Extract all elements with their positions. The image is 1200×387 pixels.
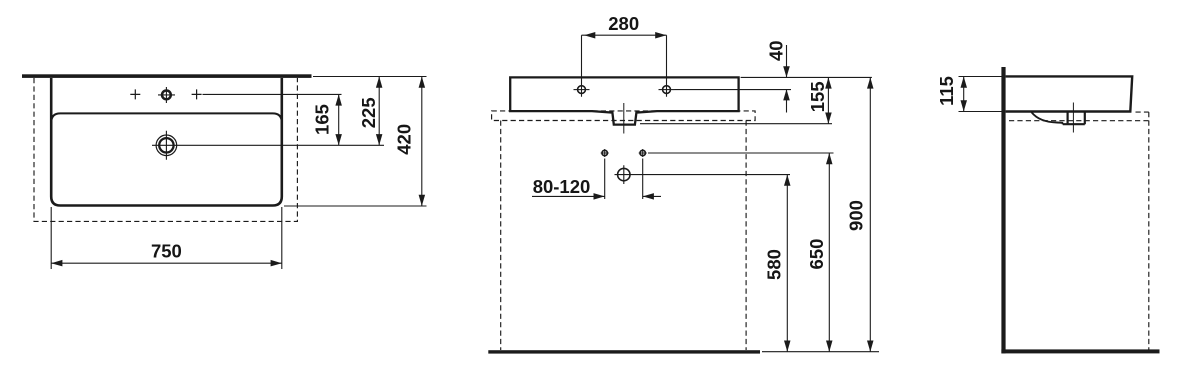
wall edge bar [22, 74, 312, 78]
furniture side dashed left [500, 121, 502, 351]
ext lines 280 to faucet holes [582, 35, 667, 97]
svg-text:750: 750 [151, 241, 182, 262]
svg-text:40: 40 [766, 40, 787, 61]
svg-text:80-120: 80-120 [533, 176, 591, 197]
dim 900 [869, 77, 871, 351]
basin front outline with trap cup [510, 77, 738, 124]
drain inner circle [159, 138, 173, 152]
dim 80-120 [532, 195, 605, 197]
svg-text:165: 165 [312, 104, 333, 135]
ext line faucet to 40 [675, 89, 792, 91]
dim 650 [828, 153, 830, 352]
bowl underside curve [1032, 112, 1063, 124]
basin outer outline [51, 78, 282, 206]
ext line bar to dims [313, 76, 427, 78]
supply drop line right [642, 159, 644, 200]
dim 420 [421, 77, 423, 207]
faucet cross left [130, 89, 140, 99]
dim 155 [827, 77, 829, 123]
faucet cross right [192, 89, 202, 99]
faucet hole front left [578, 86, 586, 94]
supply connection right [640, 150, 645, 155]
furniture top dashed [492, 111, 755, 121]
svg-text:115: 115 [936, 76, 957, 106]
ext line basin top to dims [741, 76, 872, 78]
waste outlet symbol [618, 168, 630, 180]
svg-text:225: 225 [358, 97, 379, 128]
floor line side [1001, 349, 1159, 353]
floor line [488, 350, 760, 353]
trap centerline [623, 103, 625, 134]
ext line cup bottom to 155 [640, 123, 832, 125]
furniture side dashed right [745, 121, 747, 351]
basin side profile [1006, 76, 1133, 111]
svg-text:900: 900 [846, 200, 867, 231]
svg-text:580: 580 [763, 249, 784, 280]
svg-text:155: 155 [807, 81, 828, 112]
clearance dashed side horizontal [1009, 120, 1149, 122]
ext lines 115 [959, 77, 1005, 112]
floor ext to dims [762, 351, 879, 353]
ext line supply to 650 [648, 152, 834, 154]
dim 40 [786, 45, 788, 113]
dim 580 [786, 175, 788, 352]
svg-text:420: 420 [393, 124, 414, 155]
dim 225 [378, 77, 380, 146]
ext line basin bottom to 420 [284, 205, 427, 207]
supply drop line left [604, 159, 606, 200]
clearance dashed side corner [1136, 111, 1149, 113]
supply connection left [602, 150, 607, 155]
dim 750 [51, 262, 282, 264]
svg-text:650: 650 [806, 239, 827, 270]
installation clearance dashed [34, 78, 297, 221]
ext line faucet to 165 [203, 93, 342, 95]
basin inner rim [51, 113, 281, 123]
trap cup side [1063, 112, 1085, 125]
ext lines 750 [51, 207, 282, 269]
drain outer circle [156, 135, 177, 156]
drain crosshair [152, 131, 181, 160]
dim 165 [338, 94, 340, 145]
dim 115 [963, 77, 965, 112]
svg-text:280: 280 [608, 13, 639, 34]
wall [1001, 67, 1005, 353]
ext line drain to dims [181, 144, 384, 146]
faucet hole front right [663, 86, 671, 94]
clearance dashed side vertical [1148, 112, 1150, 350]
faucet hole [162, 91, 171, 100]
ext line waste to 580 [633, 174, 790, 176]
trap centerline side [1072, 103, 1074, 133]
